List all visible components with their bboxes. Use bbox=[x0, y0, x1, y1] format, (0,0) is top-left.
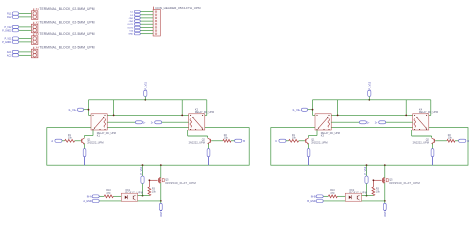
net flag P_GND1 bbox=[2, 40, 18, 44]
wire resistor to flag channel 2 right bbox=[455, 140, 459, 142]
net flag AC2 bbox=[7, 54, 19, 58]
svg-text:K3: K3 bbox=[321, 134, 325, 138]
wire gnd flag to opto channel 2 bbox=[323, 200, 345, 202]
wire supply down channel 1 bbox=[142, 165, 144, 176]
net flag GND vertical channel 2 left bbox=[307, 149, 310, 157]
transistor Q 2N2222_UPM channel 2 left bbox=[305, 138, 328, 145]
optocoupler OK2 PC817_UPM bbox=[345, 189, 367, 201]
net flag GND vertical channel 1 right bbox=[207, 149, 210, 157]
wire Q collector to relay K3 channel 2 bbox=[308, 136, 310, 138]
net flag ON_4 bbox=[375, 121, 386, 125]
wire relay K3 to flag ON_3 bbox=[331, 121, 359, 123]
wire P_GND2 to X2 pin2 bbox=[19, 29, 32, 31]
frame box channel 2 bbox=[271, 128, 468, 166]
resistor R10 470 input bbox=[104, 189, 113, 198]
wire flag to R base resistor channel 2 bbox=[286, 140, 289, 142]
resistor R23 10k gate pull-up bbox=[372, 187, 381, 196]
wire emitter down channel 2 left bbox=[308, 144, 310, 149]
wire drain down channel 2 bbox=[384, 183, 386, 201]
wire emitter flag stem channel 2 right bbox=[432, 157, 434, 166]
header X5 CON_HEADER_05X2-FTH_UPM bbox=[153, 6, 201, 36]
wire right drop channel 2 bbox=[430, 100, 432, 116]
svg-text:AC1: AC1 bbox=[7, 51, 12, 54]
net flag GND bbox=[128, 33, 140, 36]
wire supply stem channel 1 bbox=[144, 97, 146, 100]
net flag GND vertical channel 1 left bbox=[83, 149, 86, 157]
wire drain to out flag channel 1 bbox=[160, 201, 162, 203]
wire flag ON_4 to relay K4 bbox=[386, 121, 413, 123]
svg-text:P_V12: P_V12 bbox=[368, 81, 372, 89]
net flag supply vertical channel 1 bbox=[141, 176, 144, 184]
wire header pin 4 bbox=[140, 20, 153, 22]
svg-text:GND: GND bbox=[128, 34, 133, 36]
wire header pin 2 bbox=[140, 14, 153, 16]
svg-text:TERMINAL_BLOCK_02-5MM_UPM: TERMINAL_BLOCK_02-5MM_UPM bbox=[39, 45, 94, 49]
net flag ON2 bbox=[129, 20, 141, 23]
wire inner-right drop channel 1 bbox=[181, 100, 183, 116]
wire Q collector to relay K2 channel 1 bbox=[207, 136, 209, 138]
wire RL1 to X1 pin1 bbox=[19, 13, 32, 15]
svg-text:TERMINAL_BLOCK_02-5MM_UPM: TERMINAL_BLOCK_02-5MM_UPM bbox=[39, 32, 94, 36]
net flag P_V11 bbox=[5, 37, 19, 41]
wire emitter down channel 1 left bbox=[84, 144, 86, 149]
wire inner-left drop channel 1 bbox=[113, 100, 115, 116]
terminal block X2 TERMINAL_BLOCK_02-5MM_UPM bbox=[31, 20, 94, 33]
net flag ON_2 bbox=[151, 121, 162, 125]
transistor Q 2N2222_UPM channel 2 right bbox=[413, 138, 436, 145]
resistor R11 10k base left bbox=[65, 134, 75, 142]
wire source up channel 1 bbox=[160, 165, 162, 178]
wire resistor to flag channel 1 right bbox=[231, 140, 235, 142]
svg-text:C: C bbox=[275, 140, 277, 143]
svg-text:OUT2: OUT2 bbox=[127, 27, 134, 29]
wire gnd flag to opto channel 1 bbox=[99, 200, 121, 202]
net flag OUT vertical channel 2 bbox=[383, 203, 386, 210]
transistor Q 2N2222_UPM channel 1 left bbox=[81, 138, 104, 145]
svg-text:2N2222_UPM: 2N2222_UPM bbox=[311, 141, 327, 145]
net flag OUT2 bbox=[127, 26, 140, 29]
net flag IL1 bbox=[130, 10, 140, 13]
node junction inner-left channel 2 bbox=[337, 115, 339, 117]
net flag OUT1 bbox=[127, 23, 140, 26]
wire emitter down channel 1 right bbox=[208, 144, 210, 149]
wire base channel 1 right bbox=[211, 140, 223, 142]
wire header pin 5 bbox=[140, 23, 153, 25]
wire RL2 to X1 pin2 bbox=[19, 16, 32, 18]
svg-text:IRF9540_FLAT_UPM: IRF9540_FLAT_UPM bbox=[165, 181, 196, 185]
net flag +24V vertical channel 1 bbox=[144, 81, 148, 96]
relay K1 Relay_DC_UPM bbox=[91, 114, 116, 138]
node junction source channel 2 bbox=[384, 164, 386, 166]
relay K3 Relay_DC_UPM bbox=[315, 114, 340, 138]
net flag A_GND bbox=[83, 200, 99, 203]
net flag ON_1 bbox=[135, 121, 146, 125]
svg-text:P_V12: P_V12 bbox=[363, 166, 367, 174]
svg-text:P_V11: P_V11 bbox=[139, 166, 143, 174]
wire supply down channel 2 bbox=[366, 165, 368, 176]
svg-text:2N2222_UPM: 2N2222_UPM bbox=[87, 141, 103, 145]
node junction inner-left channel 1 bbox=[113, 115, 115, 117]
wire flag to R470 channel 2 bbox=[323, 195, 328, 197]
wire P_V12 to X2 pin1 bbox=[19, 26, 32, 28]
wire P_GND1 to X3 pin2 bbox=[19, 41, 32, 43]
wire flag to R base resistor channel 1 bbox=[62, 140, 65, 142]
net flag RL1 bbox=[7, 12, 18, 16]
net flag IL_V1 bbox=[69, 108, 84, 112]
node junction inner-right channel 2 bbox=[405, 115, 407, 117]
terminal block X1 TERMINAL_BLOCK_02-5MM_UPM bbox=[31, 7, 94, 20]
net flag supply vertical channel 2 bbox=[365, 176, 368, 184]
wire IL flag channel 1 bbox=[84, 109, 89, 111]
wire R470 to opto channel 1 bbox=[113, 195, 121, 197]
wire flag ON_2 to relay K2 bbox=[162, 121, 189, 123]
wire R470 to opto channel 2 bbox=[337, 195, 345, 197]
wire gate channel 1 bbox=[149, 179, 157, 181]
relay K4 Relay_DC_UPM bbox=[413, 108, 438, 130]
wire AC1 to X4 pin1 bbox=[19, 51, 32, 53]
node supply junction channel 2 bbox=[368, 99, 370, 101]
net flag P_GND2 bbox=[2, 29, 18, 33]
svg-text:K1: K1 bbox=[97, 134, 101, 138]
wire supply stem channel 2 bbox=[368, 97, 370, 100]
wire Q collector to relay K1 channel 1 bbox=[84, 136, 86, 138]
wire IL flag channel 2 bbox=[308, 109, 313, 111]
wire flag to opto node channel 2 bbox=[366, 184, 368, 196]
svg-text:IN-B: IN-B bbox=[311, 195, 316, 198]
node junction supply bottom channel 2 bbox=[366, 164, 368, 166]
net flag IN-A bbox=[87, 195, 99, 198]
svg-text:A_GND: A_GND bbox=[83, 200, 92, 203]
net flag IL_V2 bbox=[293, 108, 308, 112]
node junction source channel 1 bbox=[160, 164, 162, 166]
svg-text:470: 470 bbox=[330, 192, 335, 195]
svg-text:B_GND: B_GND bbox=[307, 200, 316, 203]
wire base channel 2 left bbox=[299, 140, 305, 142]
svg-text:TERMINAL_BLOCK_02-5MM_UPM: TERMINAL_BLOCK_02-5MM_UPM bbox=[39, 7, 94, 11]
wire relay top link channel 2 bbox=[313, 114, 316, 116]
svg-text:P_V12: P_V12 bbox=[4, 27, 12, 29]
wire inner-right drop channel 2 bbox=[405, 100, 407, 116]
resistor R21 10k base left bbox=[289, 134, 299, 142]
svg-text:ON1: ON1 bbox=[129, 18, 134, 20]
wire left drop channel 1 bbox=[88, 100, 90, 116]
svg-text:CON_HEADER_05X2-FTH_UPM: CON_HEADER_05X2-FTH_UPM bbox=[155, 6, 201, 10]
svg-text:OUT2: OUT2 bbox=[383, 209, 387, 216]
wire emitter flag stem channel 1 right bbox=[208, 157, 210, 166]
net flag +24V vertical channel 2 bbox=[368, 81, 372, 96]
wire source up channel 2 bbox=[384, 165, 386, 178]
wire emitter down channel 2 right bbox=[432, 144, 434, 149]
svg-text:IN-A: IN-A bbox=[87, 195, 92, 198]
optocoupler OK1 PC817_UPM bbox=[121, 189, 143, 201]
svg-text:IL_V2+: IL_V2+ bbox=[293, 109, 302, 112]
net flag V24 bbox=[129, 29, 140, 32]
net flag IN-B bbox=[311, 195, 323, 198]
svg-text:OUT1: OUT1 bbox=[127, 24, 134, 26]
net flag P_V12 bbox=[4, 25, 18, 29]
svg-text:AC2: AC2 bbox=[7, 54, 12, 57]
wire flag to opto node channel 1 bbox=[142, 184, 144, 196]
svg-text:P_GND1: P_GND1 bbox=[2, 42, 12, 44]
terminal block X3 TERMINAL_BLOCK_02-5MM_UPM bbox=[31, 32, 94, 45]
svg-text:P_GND2: P_GND2 bbox=[2, 30, 12, 32]
wire emitter flag stem channel 1 left bbox=[84, 157, 86, 166]
wire opto collector to gate resistor channel 2 bbox=[362, 195, 374, 197]
wire top rail channel 2 bbox=[313, 99, 431, 101]
wire AC2 to X4 pin2 bbox=[19, 54, 32, 56]
svg-text:RL1: RL1 bbox=[7, 14, 12, 16]
net flag B bbox=[235, 139, 246, 143]
resistor R13 10k gate pull-up bbox=[148, 187, 157, 196]
wire header pin 1 bbox=[140, 11, 153, 13]
net flag A bbox=[51, 139, 62, 143]
wire base channel 1 left bbox=[75, 140, 81, 142]
wire left drop channel 2 bbox=[312, 100, 314, 116]
net flag C bbox=[275, 139, 286, 143]
transistor Q 2N2222_UPM channel 1 right bbox=[189, 138, 212, 145]
wire right drop channel 1 bbox=[206, 100, 208, 116]
net flag ON1 bbox=[129, 17, 141, 20]
relay K2 Relay_DC_UPM bbox=[189, 108, 214, 130]
node junction supply bottom channel 1 bbox=[142, 164, 144, 166]
transistor Q25 IRF9540_FLAT_UPM bbox=[382, 177, 420, 185]
svg-text:IL_V1+: IL_V1+ bbox=[69, 109, 78, 112]
wire relay top link channel 1 bbox=[89, 114, 92, 116]
svg-text:TERMINAL_BLOCK_02-5MM_UPM: TERMINAL_BLOCK_02-5MM_UPM bbox=[39, 20, 94, 24]
wire inner-left drop channel 2 bbox=[337, 100, 339, 116]
wire header pin 6 bbox=[140, 26, 153, 28]
resistor R22 10k base right bbox=[447, 134, 455, 142]
wire drain down channel 1 bbox=[160, 183, 162, 201]
net flag IL2 bbox=[130, 14, 140, 17]
svg-text:RL2: RL2 bbox=[7, 17, 12, 19]
wire P_V11 to X3 pin1 bbox=[19, 38, 32, 40]
frame box channel 1 bbox=[47, 128, 249, 166]
wire base channel 2 right bbox=[435, 140, 447, 142]
wire header pin 3 bbox=[140, 17, 153, 19]
node junction inner-right channel 1 bbox=[181, 115, 183, 117]
transistor Q15 IRF9540_FLAT_UPM bbox=[158, 177, 196, 185]
svg-text:2N2222_UPM: 2N2222_UPM bbox=[413, 141, 429, 145]
wire emitter flag stem channel 2 left bbox=[308, 157, 310, 166]
svg-text:ON2: ON2 bbox=[129, 21, 134, 23]
node supply junction channel 1 bbox=[144, 99, 146, 101]
svg-text:D: D bbox=[467, 140, 469, 143]
resistor R20 470 input bbox=[328, 189, 337, 198]
wire gate channel 2 bbox=[373, 179, 381, 181]
wire header pin 7 bbox=[140, 30, 153, 32]
net flag D bbox=[459, 139, 470, 143]
wire opto emitter to drain channel 1 bbox=[138, 200, 161, 202]
wire drain to out flag channel 2 bbox=[384, 201, 386, 203]
net flag OUT vertical channel 1 bbox=[159, 203, 162, 210]
net flag ON_3 bbox=[359, 121, 370, 125]
net flag RL2 bbox=[7, 15, 18, 19]
wire Q collector to relay K4 channel 2 bbox=[431, 136, 433, 138]
wire header pin 8 bbox=[140, 33, 153, 35]
svg-text:IRF9540_FLAT_UPM: IRF9540_FLAT_UPM bbox=[389, 181, 420, 185]
net flag B_GND bbox=[307, 200, 323, 203]
net flag GND vertical channel 2 right bbox=[431, 149, 434, 157]
svg-text:P_V11: P_V11 bbox=[144, 81, 148, 89]
net flag AC1 bbox=[7, 50, 19, 54]
terminal block X4 TERMINAL_BLOCK_02-5MM_UPM bbox=[31, 45, 94, 58]
svg-text:2N2222_UPM: 2N2222_UPM bbox=[189, 141, 205, 145]
svg-text:470: 470 bbox=[106, 192, 111, 195]
svg-text:OUT1: OUT1 bbox=[159, 209, 163, 216]
wire top rail channel 1 bbox=[89, 99, 207, 101]
wire flag to R470 channel 1 bbox=[99, 195, 104, 197]
wire opto collector to gate resistor channel 1 bbox=[138, 195, 150, 197]
resistor R12 10k base right bbox=[223, 134, 231, 142]
wire relay K1 to flag ON_1 bbox=[107, 121, 135, 123]
wire opto emitter to drain channel 2 bbox=[362, 200, 385, 202]
svg-text:P_V11: P_V11 bbox=[5, 39, 12, 41]
